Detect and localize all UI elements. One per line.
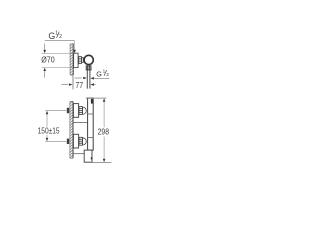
- Ø70 top arrow: [44, 44, 46, 50]
- body top edge extended (298 top extension line): [86, 97, 107, 99]
- 298 arrowhead down: [103, 159, 106, 163]
- bottom union ball end: [83, 138, 87, 145]
- 298 arrowhead up: [103, 98, 106, 102]
- dimension 77: [72, 75, 74, 89]
- wall section outline (top drawing): [70, 44, 73, 76]
- top union nut (hatched): [79, 107, 82, 115]
- outlet pipe: [87, 70, 90, 89]
- top union ball end: [83, 107, 87, 114]
- top union nut facet lines: [79, 109, 82, 113]
- dimension Ø70 extension lines: [42, 54, 74, 68]
- dark tick on body right top: [91, 99, 93, 104]
- wall face line bottom drawing: [72, 101, 74, 158]
- 77 dimension tail line right: [94, 84, 96, 86]
- middle bracket line: [73, 121, 88, 123]
- valve body circle: [84, 55, 93, 64]
- wall face line: [72, 44, 74, 76]
- wall hatch lines: [67, 34, 77, 87]
- dimension 298 line + arrows: [103, 102, 105, 159]
- outlet box at bottom: [84, 150, 92, 162]
- dimension 150±15 line + arrows: [46, 114, 48, 138]
- svg-text:Ø70: Ø70: [41, 55, 55, 65]
- svg-text:2: 2: [59, 34, 62, 40]
- leader vertical tail: [74, 41, 76, 50]
- washer: [82, 58, 84, 63]
- wall hatch lines bottom: [67, 92, 77, 167]
- bottom union: supply stub in wall: [67, 139, 69, 144]
- dimension 150±15 extension lines: [45, 111, 66, 142]
- 77 arrowhead right: [90, 83, 94, 86]
- pipe thread callout arrows: [75, 77, 82, 79]
- dark tick on outlet box right: [91, 157, 93, 159]
- leader underline of right G label: [94, 77, 110, 79]
- svg-text:298: 298: [98, 128, 110, 137]
- svg-text:77: 77: [75, 81, 83, 90]
- 150±15 arrowhead down: [46, 138, 49, 141]
- union nut facet lines (top drawing): [79, 59, 82, 61]
- Ø70 bottom arrow: [44, 71, 46, 78]
- 77 arrowhead left: [69, 83, 73, 86]
- outlet nut facet lines: [88, 66, 90, 70]
- 298 bottom extension line: [92, 161, 111, 163]
- bottom union escutcheon: [73, 134, 78, 148]
- callout arrowhead right (points at pipe): [90, 77, 94, 80]
- leader arrowhead at inlet: [73, 50, 76, 54]
- bottom union nut (hatched): [79, 137, 82, 145]
- outlet nut below circle: [86, 66, 91, 70]
- svg-text:G: G: [96, 70, 102, 79]
- 150±15 arrowhead up: [46, 111, 49, 115]
- top union: supply stub in wall: [67, 108, 69, 113]
- top union escutcheon: [73, 104, 78, 118]
- leader G 1/2 top: [45, 40, 75, 42]
- escutcheon (flange) top drawing: [74, 53, 79, 67]
- callout arrowhead left (points at pipe): [83, 77, 87, 80]
- mixer body (vertical): [88, 98, 94, 150]
- lower bracket line: [73, 153, 84, 155]
- wall section outline (bottom drawing): [70, 101, 73, 158]
- svg-text:150±15: 150±15: [38, 127, 60, 136]
- 77 dimension tail line left: [61, 84, 68, 86]
- svg-text:2: 2: [106, 72, 109, 77]
- union nut top drawing: [79, 57, 82, 64]
- bottom union nut facet lines: [79, 139, 82, 143]
- body inner lines: [88, 114, 94, 138]
- wall top edge (top drawing): [70, 43, 73, 45]
